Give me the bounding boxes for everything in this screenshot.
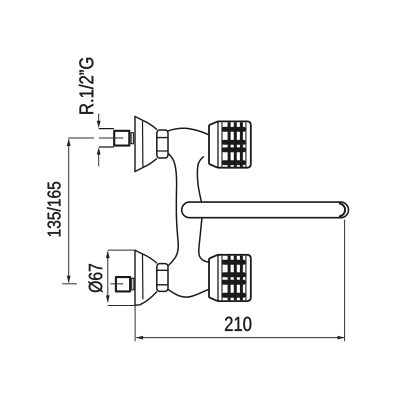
arrow 210 left	[136, 336, 143, 340]
arrow R dim down	[97, 121, 101, 128]
label R.1/2"G	[79, 58, 94, 114]
body column right edge lower S	[199, 219, 209, 263]
spout tube	[182, 202, 349, 218]
dim 135/165 line	[68, 140, 70, 283]
label 135/165	[47, 182, 61, 236]
union nut bottom facet line 1	[157, 269, 168, 271]
escutcheon bell top bottom profile	[135, 159, 157, 172]
arrowheads	[67, 121, 345, 340]
union nut top	[157, 130, 168, 158]
wall union R2 threaded body bottom	[116, 277, 130, 291]
escutcheon bell bottom inner contour	[142, 255, 144, 299]
arrow 135/165 top	[67, 139, 71, 147]
handle H1 thick rib 2	[234, 122, 237, 167]
node top pipe centerline	[69, 137, 123, 139]
escutcheon bell bottom bottom profile	[135, 292, 157, 305]
handle H2 thick rib 3	[240, 256, 243, 301]
handle H1 thin rib left	[221, 122, 223, 166]
handle H1 thick rib 1	[228, 122, 231, 167]
handle H2 thin rib right	[245, 256, 247, 300]
body column right edge upper S	[197, 157, 203, 202]
dim O67 line	[107, 252, 109, 303]
wire top pipe shaft bottom line	[99, 146, 113, 148]
handle H2 outline (bottom)	[209, 255, 251, 301]
escutcheon bell bottom top profile	[135, 250, 157, 263]
body column left edge	[168, 154, 178, 266]
dim O67 top extension	[108, 249, 135, 251]
escutcheon bell top profile	[135, 117, 157, 130]
escutcheon bell bottom left edge	[134, 250, 136, 305]
handle H1 thin rib right	[245, 122, 247, 166]
arrow 135/165 bottom	[67, 276, 71, 284]
valve body top upper edge	[168, 128, 209, 135]
handle H1 knurl bars	[221, 127, 246, 165]
arrow O67 bottom	[106, 295, 110, 303]
handle H1 outline (top)	[209, 121, 251, 167]
handle H2 skirt separator	[217, 255, 219, 301]
union nut bottom	[157, 264, 168, 292]
node bottom pipe centerline	[111, 283, 123, 285]
handle H1 thick rib 3	[240, 122, 243, 167]
connector strip top	[131, 133, 133, 144]
valve body bottom lower edge	[168, 289, 208, 297]
extension line right of 210	[344, 220, 346, 342]
handle H2 knurl bars	[221, 260, 246, 298]
escutcheon bell top inner contour	[142, 122, 144, 166]
handle H1 skirt separator	[217, 122, 219, 168]
label 210	[225, 317, 251, 331]
arrow R dim up	[97, 147, 101, 154]
dim O67 bottom extension	[108, 305, 136, 307]
union nut top facet line 2	[157, 150, 168, 152]
union nut top facet line 1	[157, 137, 168, 139]
handle H2 thin rib left	[221, 256, 223, 300]
connector strip bottom	[132, 278, 134, 290]
union nut bottom facet line 2	[157, 284, 168, 286]
escutcheon bell top left edge	[134, 117, 136, 172]
handle H2 thick rib 2	[234, 256, 237, 301]
arrow O67 top	[106, 251, 110, 259]
dim 210 line	[136, 337, 344, 339]
arrow 210 right	[338, 336, 345, 340]
extension line left of 210	[134, 306, 136, 342]
spout end inner lip	[340, 204, 345, 217]
handle H2 thick rib 1	[228, 256, 231, 301]
dim 135/165 bottom tick	[62, 283, 77, 285]
dimension lines	[62, 114, 344, 342]
dim R.1/2"G leader lower	[98, 154, 100, 166]
dim R.1/2"G leader upper	[98, 114, 100, 122]
wire top pipe shaft top line	[99, 128, 113, 130]
label O67	[88, 264, 102, 292]
wall union R1 threaded body top	[114, 131, 129, 146]
